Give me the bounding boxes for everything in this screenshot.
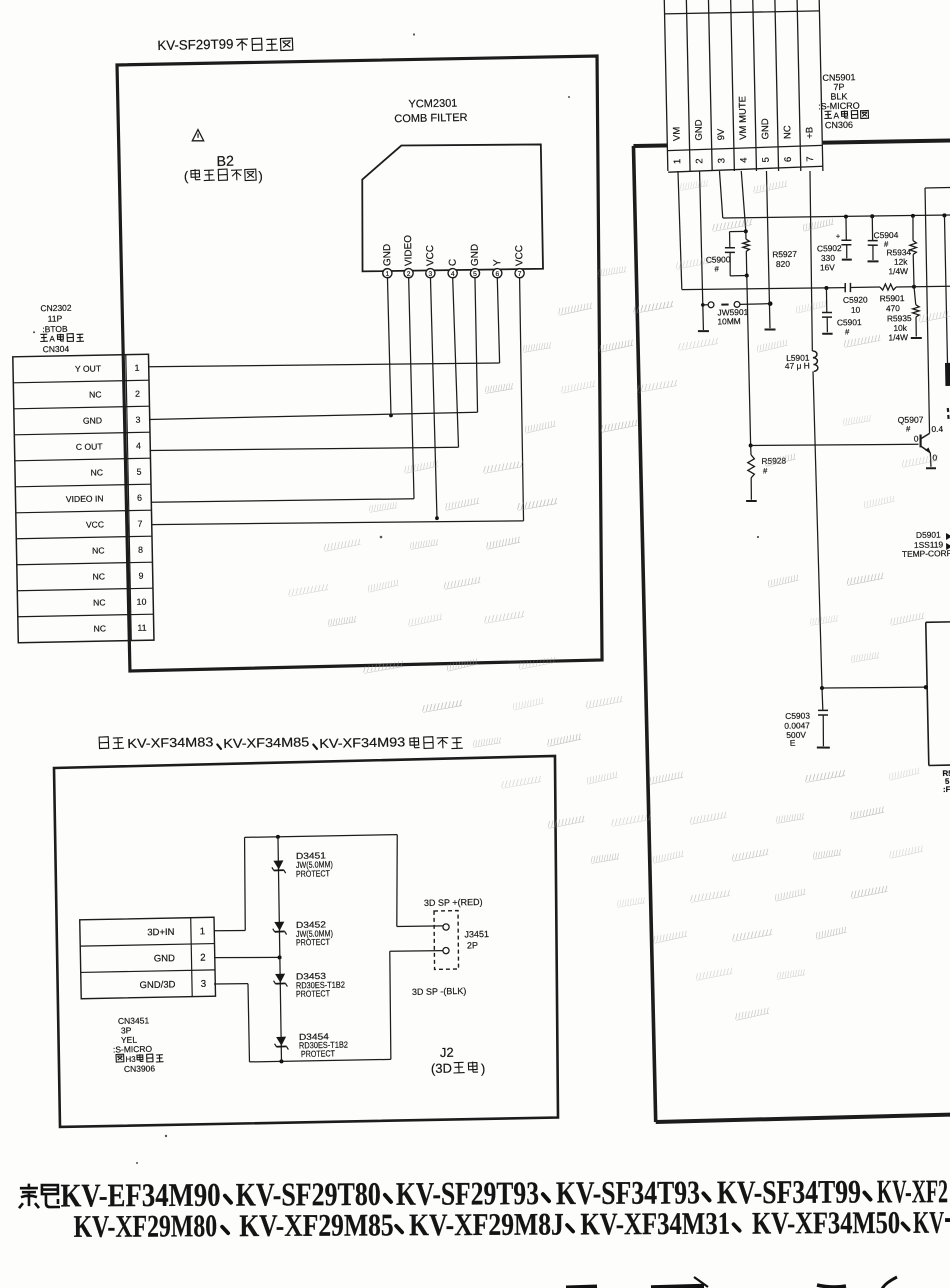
svg-text:COMB FILTER: COMB FILTER bbox=[394, 112, 467, 125]
svg-text:CN3906: CN3906 bbox=[124, 1063, 156, 1074]
svg-text:C OUT: C OUT bbox=[76, 441, 104, 452]
svg-text:+: + bbox=[836, 232, 841, 241]
svg-text:3D+IN: 3D+IN bbox=[147, 927, 175, 939]
svg-text:A: A bbox=[833, 110, 839, 120]
connector J3451 dashed bbox=[433, 911, 459, 970]
wire comb pin6 Y to row1 Y OUT bbox=[497, 277, 499, 363]
svg-text:A: A bbox=[49, 334, 55, 343]
svg-text:8: 8 bbox=[138, 545, 143, 555]
svg-text:+B: +B bbox=[804, 127, 815, 139]
svg-text:1: 1 bbox=[200, 926, 206, 937]
diode D3454 bbox=[274, 1037, 288, 1051]
diode D3453 bbox=[273, 974, 287, 988]
wires 3D circuit bbox=[214, 929, 245, 932]
svg-text:C5920: C5920 bbox=[843, 294, 868, 304]
resistor R5935 bbox=[914, 287, 916, 305]
svg-text:C5901: C5901 bbox=[837, 317, 862, 327]
svg-text:NC: NC bbox=[92, 545, 105, 555]
transistor Q5907 bbox=[919, 435, 922, 448]
svg-text:GND/3D: GND/3D bbox=[139, 979, 175, 991]
wire comb pin1 GND + junction bbox=[387, 277, 391, 415]
note: only KV-XF34M83/85/93 use this figure bbox=[99, 737, 109, 749]
svg-text:0: 0 bbox=[914, 434, 919, 444]
junction + capacitor C5901 bbox=[824, 286, 828, 290]
svg-text:16V: 16V bbox=[820, 262, 836, 272]
svg-text:CN306: CN306 bbox=[825, 120, 853, 131]
svg-text:2: 2 bbox=[135, 389, 140, 399]
diode D3452 bbox=[273, 922, 287, 936]
svg-text:PROTECT: PROTECT bbox=[296, 937, 331, 948]
line from 9V rail down to part (cropped) bbox=[944, 215, 947, 363]
svg-text:E: E bbox=[790, 738, 796, 748]
svg-text:820: 820 bbox=[776, 259, 791, 269]
wire pin3 9V rail bbox=[719, 171, 722, 218]
svg-text::F: :F bbox=[943, 785, 950, 794]
wire comb pin5 GND to row3 GND bbox=[475, 277, 478, 412]
svg-text:D5901: D5901 bbox=[916, 530, 941, 540]
svg-text:KV-XF34M31: KV-XF34M31 bbox=[580, 1206, 730, 1242]
svg-text:R5901: R5901 bbox=[880, 293, 905, 303]
svg-text:4: 4 bbox=[136, 441, 141, 451]
svg-text:NC: NC bbox=[93, 571, 106, 581]
right box borders bbox=[633, 140, 950, 147]
svg-text:47 μ H: 47 μ H bbox=[785, 361, 810, 371]
svg-text:KV: KV bbox=[913, 1205, 944, 1240]
svg-text:): ) bbox=[481, 1061, 486, 1076]
IC block right edge (cropped) bbox=[926, 621, 950, 624]
svg-text:10MM: 10MM bbox=[717, 316, 740, 326]
svg-text:9: 9 bbox=[138, 571, 143, 581]
svg-text:YCM2301: YCM2301 bbox=[408, 98, 457, 111]
svg-text:NC: NC bbox=[91, 467, 104, 477]
svg-text:TEMP-CORR: TEMP-CORR bbox=[902, 548, 950, 559]
svg-text:H3: H3 bbox=[125, 1055, 136, 1064]
svg-text:B2: B2 bbox=[216, 154, 234, 170]
bottom model list (bold serif) bbox=[60, 1174, 950, 1244]
svg-text:VIDEO IN: VIDEO IN bbox=[66, 493, 104, 504]
svg-text:GND: GND bbox=[693, 119, 704, 140]
connector CN3451 table bbox=[80, 917, 216, 998]
wire pin2 GND + ground bbox=[700, 171, 704, 330]
svg-text:KV-XF29M80: KV-XF29M80 bbox=[74, 1208, 218, 1244]
svg-text:KV-XF34M85: KV-XF34M85 bbox=[223, 734, 309, 751]
svg-text:KV-SF29T99: KV-SF29T99 bbox=[157, 37, 233, 53]
svg-text:CN2302: CN2302 bbox=[40, 303, 72, 314]
svg-text:VM MUTE: VM MUTE bbox=[737, 96, 749, 140]
svg-text:GND: GND bbox=[83, 415, 102, 425]
svg-text:GND: GND bbox=[760, 118, 771, 139]
svg-text:1: 1 bbox=[134, 363, 139, 373]
svg-text:GND: GND bbox=[382, 244, 393, 266]
jumper JW5901 bbox=[701, 303, 705, 307]
svg-text:10: 10 bbox=[137, 597, 147, 607]
svg-text:C5904: C5904 bbox=[874, 230, 899, 240]
svg-text:CN3451: CN3451 bbox=[118, 1015, 150, 1026]
wire comb pin4 C to row4 C OUT bbox=[453, 277, 459, 447]
svg-text:2: 2 bbox=[694, 158, 705, 164]
connector CN2302 table bbox=[13, 354, 154, 643]
svg-text:VCC: VCC bbox=[514, 245, 525, 266]
svg-text:KV-XF34M50: KV-XF34M50 bbox=[752, 1205, 900, 1241]
svg-text:R5927: R5927 bbox=[772, 249, 797, 259]
box B2 comb filter outline bbox=[117, 56, 609, 671]
inductor L5901 bbox=[812, 351, 818, 372]
svg-text:PROTECT: PROTECT bbox=[301, 1048, 336, 1059]
svg-text:1: 1 bbox=[385, 271, 389, 278]
svg-text:4: 4 bbox=[451, 271, 455, 278]
svg-text:6: 6 bbox=[137, 493, 142, 503]
svg-text:GND: GND bbox=[470, 244, 481, 266]
svg-text:KV-XF34M83: KV-XF34M83 bbox=[127, 734, 213, 751]
svg-text:3D SP +(RED): 3D SP +(RED) bbox=[424, 897, 483, 908]
capacitor C5902 electrolytic bbox=[845, 217, 848, 240]
svg-text:3D SP -(BLK): 3D SP -(BLK) bbox=[412, 986, 467, 997]
svg-text:1/4W: 1/4W bbox=[888, 332, 908, 342]
svg-text:5: 5 bbox=[473, 271, 477, 278]
svg-text:VM: VM bbox=[672, 127, 683, 142]
svg-text:NC: NC bbox=[782, 125, 793, 139]
capacitor C5920 series bbox=[844, 283, 846, 292]
scan smudge artifacts bbox=[679, 180, 708, 190]
svg-text:1/4W: 1/4W bbox=[888, 266, 908, 276]
svg-text:0.4: 0.4 bbox=[931, 424, 943, 434]
svg-text:3: 3 bbox=[428, 271, 432, 278]
comb filter body YCM2301 bbox=[360, 143, 543, 272]
svg-text:KV-XF29M85: KV-XF29M85 bbox=[239, 1207, 393, 1243]
svg-text:3: 3 bbox=[201, 979, 207, 990]
svg-text:CN304: CN304 bbox=[43, 344, 70, 355]
svg-text:GND: GND bbox=[154, 953, 175, 964]
svg-text:11: 11 bbox=[137, 623, 146, 633]
svg-text:6: 6 bbox=[495, 271, 499, 278]
svg-text:NC: NC bbox=[94, 623, 107, 633]
wire pin4 VM MUTE with R5927 bbox=[741, 171, 746, 231]
svg-text:): ) bbox=[258, 168, 263, 183]
svg-text:2: 2 bbox=[200, 953, 206, 964]
svg-text:C: C bbox=[448, 259, 459, 266]
capacitor C5903 bbox=[821, 688, 824, 710]
svg-text:VIDEO: VIDEO bbox=[403, 235, 415, 267]
3D box outline bbox=[53, 756, 562, 1127]
svg-text:(3D: (3D bbox=[431, 1061, 452, 1076]
svg-text:VCC: VCC bbox=[86, 519, 104, 529]
svg-text:NC: NC bbox=[89, 389, 102, 399]
wire pin5 GND + ground bbox=[766, 171, 770, 328]
svg-text:5: 5 bbox=[136, 467, 141, 477]
svg-text:3: 3 bbox=[716, 158, 727, 164]
svg-text:PROTECT: PROTECT bbox=[296, 988, 331, 999]
svg-text:Y OUT: Y OUT bbox=[75, 363, 102, 374]
wire comb pin2 VIDEO to row6 VIDEO IN bbox=[409, 277, 414, 499]
junction R5928 to ground bbox=[749, 443, 753, 447]
svg-text:KV-XF34M93: KV-XF34M93 bbox=[319, 734, 405, 751]
wire comb pin3 VCC + junction bbox=[430, 277, 437, 518]
warning triangle bbox=[192, 129, 204, 141]
svg-text:3: 3 bbox=[135, 415, 140, 425]
svg-text:Y: Y bbox=[492, 259, 503, 266]
bottom cropped glyph fragments bbox=[566, 1287, 597, 1288]
diode chain D3451-D3454 bbox=[277, 837, 282, 1062]
svg-text:1: 1 bbox=[672, 159, 683, 165]
svg-text:NC: NC bbox=[93, 597, 106, 607]
diode D3451 bbox=[272, 860, 286, 874]
wire pin1 VM bbox=[678, 171, 682, 290]
svg-text:2: 2 bbox=[407, 271, 411, 278]
svg-text:Q5907: Q5907 bbox=[898, 415, 924, 425]
wire comb pin7 VCC to row7 VCC bbox=[519, 277, 524, 521]
stray specks bbox=[413, 33, 415, 35]
svg-text:4: 4 bbox=[739, 157, 750, 163]
svg-text:6: 6 bbox=[783, 157, 794, 163]
wire base Q5907 bbox=[751, 442, 919, 447]
resistor R5934 bbox=[912, 216, 915, 241]
svg-text:470: 470 bbox=[886, 303, 901, 313]
svg-text:5: 5 bbox=[761, 157, 772, 163]
svg-text:7: 7 bbox=[137, 519, 142, 529]
svg-text:11P: 11P bbox=[48, 313, 63, 323]
svg-text:J3451: J3451 bbox=[464, 929, 489, 939]
svg-text:J2: J2 bbox=[440, 1045, 454, 1060]
svg-text:10: 10 bbox=[851, 305, 861, 315]
resistor R5901 bbox=[880, 284, 896, 291]
wire pin7 +B with L5901 bbox=[809, 171, 814, 351]
svg-text:VCC: VCC bbox=[425, 245, 436, 266]
svg-text:7: 7 bbox=[805, 156, 816, 162]
svg-text:KV-XF29M8J: KV-XF29M8J bbox=[409, 1207, 564, 1243]
svg-text:2P: 2P bbox=[467, 940, 478, 950]
svg-text::BTOB: :BTOB bbox=[42, 324, 68, 334]
capacitor C5900 parallel bbox=[730, 230, 746, 232]
connector CN5901 body bbox=[664, 0, 824, 174]
capacitor C5904 bbox=[871, 216, 874, 240]
svg-text:7: 7 bbox=[518, 271, 522, 278]
svg-text:PROTECT: PROTECT bbox=[296, 868, 331, 879]
svg-text::S-MICRO: :S-MICRO bbox=[113, 1044, 153, 1055]
svg-text:9V: 9V bbox=[716, 128, 727, 140]
